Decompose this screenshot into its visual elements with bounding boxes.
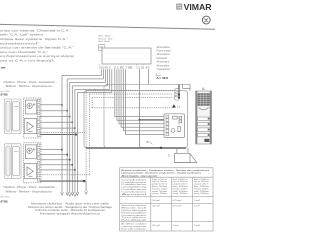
svg-text:Citofono - Phone - Poste - Hau: Citofono - Phone - Poste - Haustelefon -: [4, 185, 58, 189]
junction dots unit 2: [61, 149, 85, 182]
bold wire unit 1: [40, 134, 77, 136]
table row 1: [121, 178, 148, 195]
citofono unit 2 phone front: [4, 144, 21, 179]
bend horizontals to supply: [62, 75, 101, 77]
citofono label (lower): [4, 185, 58, 193]
svg-text:0,5 mm²: 0,5 mm²: [152, 224, 160, 227]
ringer coil: [174, 88, 179, 100]
citofono unit 2 schematic dashed box: [24, 143, 41, 183]
header rule: [0, 24, 215, 29]
terminal labels: [99, 67, 150, 70]
terminal strip unit 1: [37, 99, 40, 136]
svg-text:B: B: [147, 140, 149, 144]
svg-text:1 mm²: 1 mm²: [194, 199, 200, 202]
table row 2: [121, 204, 149, 221]
svg-text:Réseau - Netz: Réseau - Netz: [99, 37, 113, 40]
citofono label (upper): [4, 80, 58, 88]
svg-text:Citofono - Phone - Poste - Hau: Citofono - Phone - Poste - Haustelefon -: [4, 80, 58, 84]
wire dashed: [40, 132, 86, 134]
svg-text:Leiterquerschnitt - Secciones: Leiterquerschnitt - Secciones conductore…: [121, 172, 202, 175]
supply drop verticals G1: [100, 69, 102, 75]
wire supply to targa top: [148, 69, 150, 84]
svg-text:VIMAR: VIMAR: [184, 3, 212, 12]
svg-text:έως 100m: έως 100m: [173, 192, 189, 195]
svg-text:Riser cable conductors: Riser cable conductors: [121, 227, 146, 230]
ringer symbol: [27, 103, 32, 108]
supply terminal ticks: [100, 64, 143, 65]
svg-text:0 15 AU S: 0 15 AU S: [99, 67, 111, 70]
wire supply to lock bus: [140, 69, 161, 147]
svg-text:Power supply: Power supply: [157, 50, 172, 53]
dash mark: [1, 67, 6, 68]
svg-text:875B: 875B: [1, 93, 9, 97]
wire 5: [40, 127, 75, 129]
svg-text:0,5 mm²: 0,5 mm²: [152, 199, 160, 202]
table header: [121, 169, 210, 177]
title text block: [0, 28, 75, 62]
wire 3: [40, 116, 70, 118]
speech arc: [199, 108, 209, 110]
table row 3: [121, 223, 147, 231]
svg-text:Τροφοδοτικό: Τροφοδοτικό: [157, 68, 171, 71]
ringer sub-box: [25, 100, 36, 114]
electric lock C: [175, 153, 197, 162]
junction dots unit 1: [61, 104, 76, 136]
supply drop verticals G2 to speaker terminals: [115, 69, 166, 134]
svg-text:0,75 mm²: 0,75 mm²: [173, 205, 182, 208]
citofono unit 1 schematic dashed box: [24, 98, 41, 138]
speaker grille: [198, 94, 209, 106]
svg-text:- Teléfono - Telefone - Θυροτη: - Teléfono - Telefone - Θυροτηλέφωνο -: [4, 189, 54, 193]
svg-text:875B: 875B: [1, 199, 9, 203]
svg-text:1 mm²: 1 mm²: [194, 205, 200, 208]
conductor section table: [120, 168, 213, 231]
wire 1: [40, 104, 62, 106]
svg-text:Alimentador: Alimentador: [157, 64, 170, 67]
Vimar logo: [176, 3, 211, 12]
svg-text:C1 S1 4 5: C1 S1 4 5: [136, 68, 150, 70]
speaker unit internals: [171, 116, 182, 132]
lamp L1: [172, 104, 176, 107]
speaker unit box: [164, 114, 185, 138]
table column heads: [151, 179, 210, 186]
Rete Mains label: [99, 35, 113, 44]
svg-text:Rete - Mains: Rete - Mains: [99, 35, 112, 38]
amplifier sub-box: [24, 119, 36, 134]
wire 2: [40, 110, 67, 112]
svg-text:Art. 0831: Art. 0831: [157, 76, 169, 80]
targa inner frame: [104, 84, 190, 148]
coil bold feed wire: [178, 84, 180, 98]
svg-text:έως 200m: έως 200m: [194, 192, 210, 195]
svg-text:έως 50m: έως 50m: [152, 192, 168, 195]
svg-text:1 mm²: 1 mm²: [173, 224, 179, 227]
svg-text:- Teléfono - Telefone - Θυροτη: - Teléfono - Telefone - Θυροτηλέφωνο -: [4, 84, 54, 88]
svg-text:Art. 6200: Art. 6200: [1, 195, 11, 198]
PRI mains box: [98, 45, 105, 51]
bold bottom edge: [86, 147, 186, 149]
wire 4: [40, 121, 72, 123]
dashed risers: [86, 91, 173, 191]
lock C stubs: [177, 148, 188, 153]
svg-text:Alimentatore: Alimentatore: [157, 46, 171, 49]
svg-text:1 mm²: 1 mm²: [194, 224, 200, 227]
speaker terminal strip: [166, 115, 169, 136]
dashed horizontals to coil: [86, 90, 173, 92]
svg-text:Alimentador: Alimentador: [157, 61, 170, 64]
svg-text:Αγωγοί: Αγωγοί: [121, 193, 148, 196]
risers vertical wires: [62, 69, 112, 193]
svg-text:Κεντρική γραμμή θυροτηλεφώνων: Κεντρική γραμμή θυροτηλεφώνων: [40, 212, 101, 215]
speaker unit assembly box (targa B): [84, 90, 188, 148]
alimentatore label: [157, 46, 172, 71]
power supply box: [102, 48, 151, 64]
svg-text:Διατομές αγωγών: Διατομές αγωγών: [121, 174, 159, 177]
montante note: [28, 203, 113, 216]
junction dot lock wire: [160, 147, 162, 149]
dashed horizontal to lamp L1: [92, 107, 172, 109]
name plate slots: [198, 117, 210, 137]
wires unit 1 to risers: [40, 105, 86, 133]
svg-text:Sezione conduttori - Conductor: Sezione conduttori - Conductor section -…: [121, 169, 210, 172]
terminal strip unit 2: [37, 144, 40, 181]
svg-text:Κλειδαριά: Κλειδαριά: [121, 219, 149, 222]
wires unit 2 to risers: [40, 150, 89, 175]
svg-text:2 1 8C 7 6E: 2 1 8C 7 6E: [114, 68, 133, 70]
bold wire unit 2: [40, 180, 86, 182]
bold wire to speaker: [140, 119, 165, 121]
svg-text:Netzgerät: Netzgerät: [157, 57, 168, 60]
citofono unit 1 phone front: [4, 99, 21, 134]
svg-text:Red - Rede: Red - Rede: [99, 41, 111, 43]
svg-text:0,75 mm²: 0,75 mm²: [173, 199, 182, 202]
svg-text:ατα σε C.A.» του θυροτηλ.: ατα σε C.A.» του θυροτηλ.: [0, 59, 55, 63]
riser bottom arrows: [61, 191, 88, 196]
svg-text:0,5 mm²: 0,5 mm²: [152, 205, 160, 208]
recycle circle icon: [202, 16, 210, 24]
svg-text:Alimentation: Alimentation: [157, 53, 171, 56]
amplifier triangle: [27, 122, 33, 130]
